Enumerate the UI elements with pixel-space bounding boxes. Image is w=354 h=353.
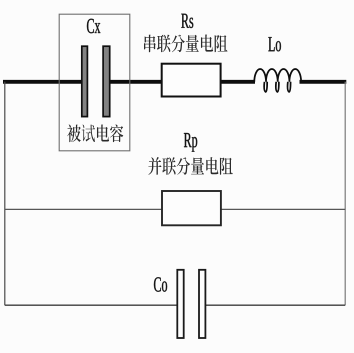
- capacitor Co: right plate: [199, 270, 205, 338]
- resistor Rp: parallel component resistance box: [162, 191, 221, 225]
- wire: left vertical branch: [4, 82, 6, 305]
- capacitor Co: left plate: [177, 270, 183, 338]
- label Lo (inductor designator): [268, 37, 281, 51]
- capacitor Cx: test-object enclosure box: [59, 14, 130, 151]
- label Cx (capacitor under test designator): [87, 19, 100, 33]
- wire: bottom branch, left segment to Co: [5, 304, 177, 306]
- wire: bottom branch, right segment from Co: [206, 304, 346, 306]
- capacitor Cx: right plate: [103, 46, 110, 116]
- inductor Lo: coil with four humps and three return loops: [254, 69, 301, 92]
- wire: right vertical branch: [344, 82, 346, 305]
- label Rs (series resistor designator): [181, 14, 193, 28]
- label Co (output capacitor designator): [154, 277, 167, 291]
- resistor Rs: series component resistance box: [162, 64, 221, 97]
- capacitor Cx: left plate: [82, 46, 88, 116]
- label "被试电容" (capacitor under test caption): [67, 124, 123, 142]
- label Rp (parallel resistor designator): [184, 133, 197, 152]
- wire: top conductor from Lo to right node: [300, 80, 347, 84]
- label "串联分量电阻" (series component resistance caption): [144, 35, 227, 53]
- wire: middle horizontal branch through Rp: [5, 208, 345, 210]
- label "并联分量电阻" (parallel component resistance caption): [148, 157, 232, 175]
- wire: top conductor between Rs and Lo: [221, 80, 256, 84]
- wire: top conductor between Cx and Rs: [110, 80, 161, 84]
- wire: main top conductor, left segment to Cx: [3, 80, 82, 84]
